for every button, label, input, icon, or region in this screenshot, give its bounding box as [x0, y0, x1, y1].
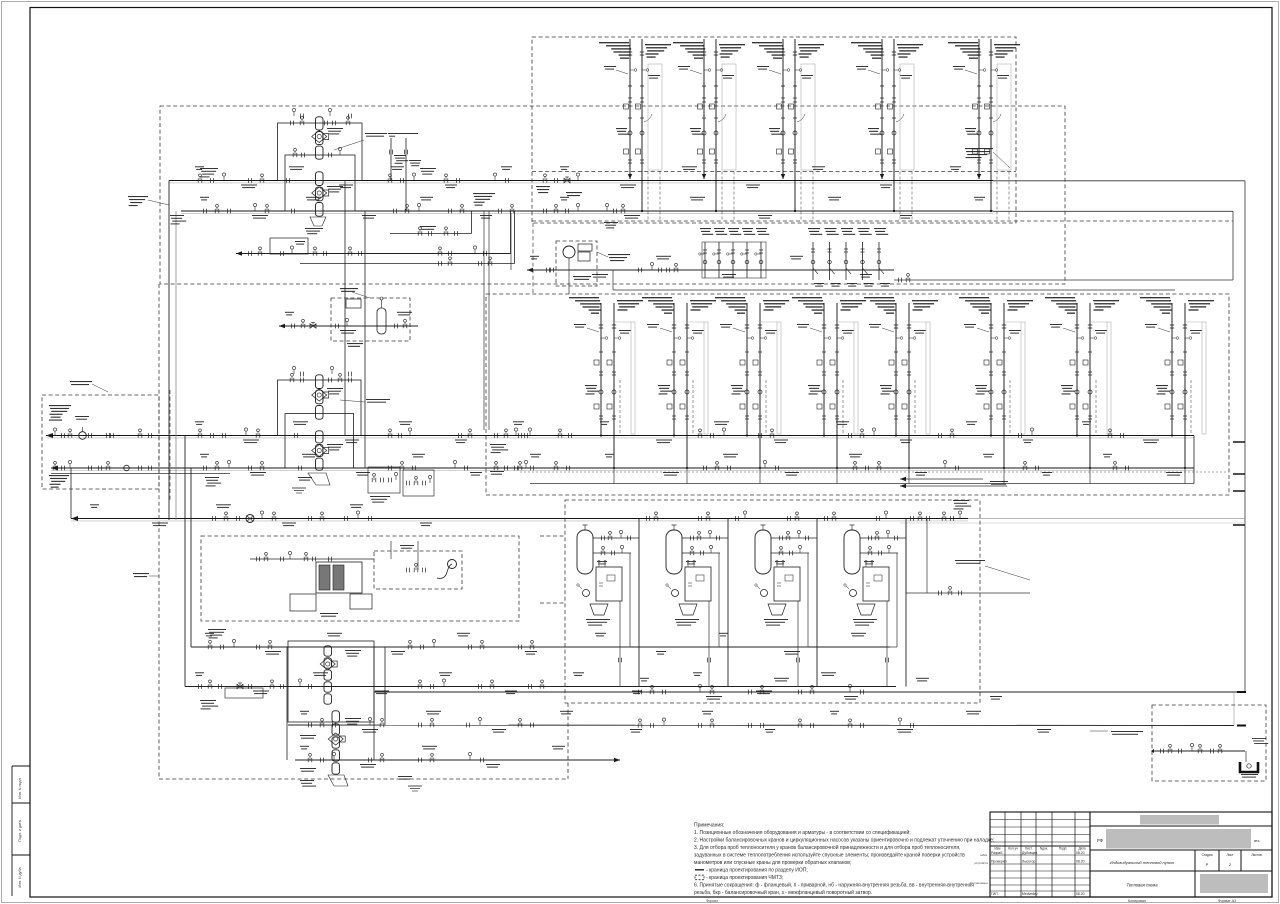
tank module 2 — [666, 530, 682, 574]
svg-text:юбки,: юбки, — [980, 853, 988, 857]
main return pipe mid y468 — [51, 467, 1194, 469]
left riser verticals — [168, 181, 170, 521]
clusters on T1 main left span — [197, 178, 199, 182]
svg-text:Лысогор: Лысогор — [1022, 860, 1035, 864]
dashed bottom-right box — [1152, 705, 1266, 781]
svg-text:ГИП: ГИП — [991, 892, 998, 896]
right header connector v1194 — [1193, 436, 1195, 484]
drop x287 — [286, 647, 288, 760]
pipe y760 — [295, 759, 620, 761]
makeup pump unit — [563, 246, 575, 258]
svg-text:1. Позиционные обозначения обо: 1. Позиционные обозначения оборудования … — [694, 829, 911, 836]
left margin stamp boxes — [12, 765, 30, 767]
svg-text:08.20: 08.20 — [1076, 860, 1085, 864]
G2 column 2 — [825, 228, 837, 229]
group G1 risers — [702, 242, 766, 278]
G1 column 1 — [700, 228, 711, 229]
scattered component labels — [195, 166, 204, 167]
top right labels — [965, 148, 993, 149]
cluster right part y692 y725 — [637, 690, 639, 695]
tank module 1 — [577, 530, 593, 574]
riser pair T1 — [599, 42, 629, 43]
tank module 4 — [844, 530, 860, 574]
svg-text:Инв. N подл.: Инв. N подл. — [18, 777, 22, 798]
svg-text:Проверил: Проверил — [991, 860, 1007, 864]
svg-text:2. Настройки балансировочных к: 2. Настройки балансировочных кранов и ци… — [694, 837, 994, 844]
cluster on y686 — [225, 688, 263, 698]
riser M8 drop — [1184, 468, 1186, 484]
svg-text:3. Для отбора проб теплоносите: 3. Для отбора проб теплоносителя у крано… — [694, 844, 961, 851]
inlet cluster T1 — [54, 431, 56, 436]
svg-text:манометров или спускные краны: манометров или спускные краны для провер… — [694, 860, 851, 866]
long pipe y725 — [288, 724, 1234, 727]
riser M3 drop — [759, 468, 761, 484]
light line y523 — [900, 522, 1245, 524]
end ticks right — [1233, 441, 1245, 443]
arrows into mains — [46, 433, 53, 438]
riser pair M6 — [959, 297, 989, 298]
drop verticals x484 489 511 — [483, 211, 485, 430]
G1 column 2 — [714, 228, 725, 229]
riser pair M5 — [864, 297, 894, 298]
center verticals top — [344, 181, 346, 436]
left margin column line — [11, 766, 13, 896]
softening filters box — [316, 562, 362, 593]
clusters y725 y760 — [307, 723, 309, 728]
pipe y647 — [191, 646, 890, 648]
svg-text:Формат А3: Формат А3 — [1218, 899, 1236, 903]
left main labels — [128, 196, 148, 197]
long pipe y692 — [374, 691, 1245, 693]
aux line y473 — [51, 473, 230, 475]
dashed v533 lower — [532, 223, 534, 294]
svg-text:Разраб.: Разраб. — [991, 851, 1003, 855]
bottom hx column 1 — [324, 646, 332, 656]
top risers lower dashed verticals — [647, 172, 649, 222]
bottom hx column 2 — [332, 711, 340, 722]
svg-text:задуванных в системе теплопотр: задуванных в системе теплопотребления ис… — [694, 852, 965, 859]
dashed region top risers — [532, 37, 1016, 223]
svg-text:Medvedev: Medvedev — [1022, 892, 1038, 896]
svg-text:08.20: 08.20 — [1076, 892, 1085, 896]
riser pair T3 — [752, 42, 782, 43]
riser M7 drop — [1089, 468, 1091, 484]
riser pair M2 — [642, 297, 672, 298]
heat exchanger assembly B — [285, 155, 355, 211]
G2 column 5 — [874, 228, 886, 229]
svg-text:Кол.уч: Кол.уч — [1008, 847, 1018, 851]
riser M6 drop — [1003, 468, 1005, 484]
svg-text:Примечания:: Примечания: — [694, 823, 724, 829]
G1 column 3 — [728, 228, 739, 229]
riser pair M4 — [792, 297, 822, 298]
cluster below top header start — [606, 207, 608, 212]
flush unit label leader — [1111, 731, 1143, 732]
svg-text:Инв. N дубл.: Инв. N дубл. — [18, 867, 22, 888]
riser pair T2 — [673, 42, 703, 43]
dashed big bottom region left edge — [158, 284, 160, 779]
svg-text:Лист: Лист — [1227, 853, 1234, 857]
G2 column 1 — [808, 228, 820, 229]
pipe y270 — [527, 269, 894, 271]
redaction bars — [1140, 815, 1219, 825]
riser pair M7 — [1045, 297, 1075, 298]
drop x613 — [612, 270, 614, 290]
heat exchanger assembly A — [278, 123, 363, 181]
G2 column 4 — [858, 228, 870, 229]
svg-text:Копировал: Копировал — [1128, 899, 1146, 903]
svg-text:ать: ать — [1254, 839, 1260, 843]
dashed tanks region — [565, 500, 980, 703]
title block left table verticals — [1004, 812, 1006, 897]
module divider verticals at bottom — [618, 686, 620, 688]
main supply pipe T1 top — [169, 180, 993, 182]
riser pair M8 — [1140, 297, 1170, 298]
label top 2shт — [388, 133, 418, 134]
svg-text:- краница проектирования ЧМТЗ;: - краница проектирования ЧМТЗ; — [706, 875, 783, 881]
cluster on y647 — [207, 645, 209, 649]
heat exchanger assembly C — [278, 380, 362, 436]
flush pipeline — [1154, 750, 1245, 752]
dashed line y221 wide — [532, 220, 1233, 222]
svg-text:устройств: устройств — [974, 861, 988, 865]
v1234 light — [1233, 692, 1235, 726]
title right structure — [1090, 825, 1272, 827]
mixing capsule — [377, 308, 386, 334]
bottom hx frame — [288, 641, 374, 722]
cold water main y518 — [71, 518, 968, 520]
mixing unit pipe — [279, 325, 418, 327]
left cluster of top headers — [542, 178, 544, 182]
riser pair M3 — [715, 297, 745, 298]
mid drops to bottom x374 x385 — [373, 647, 375, 760]
recirculation header y280 — [894, 279, 1233, 281]
connecting verticals to H211 — [510, 211, 512, 254]
dashed water-treatment box — [201, 536, 519, 621]
sub-branch cluster boxes right of assemblies — [368, 467, 400, 493]
svg-text:Индивидуальный тепловой пункт: Индивидуальный тепловой пункт — [1110, 860, 1175, 865]
brine box below — [290, 594, 316, 611]
title block outer — [990, 812, 1272, 897]
dosing pump — [448, 560, 457, 569]
main return pipe T2 top — [181, 210, 993, 212]
clusters along mid mains — [197, 433, 199, 437]
riser M1 drop — [613, 468, 615, 484]
G1 column 4 — [742, 228, 753, 229]
svg-text:Тепловая схема: Тепловая схема — [1126, 883, 1158, 888]
svg-text:6. Принятые сокращения: ф - фл: 6. Принятые сокращения: ф - фланцевый, п… — [694, 882, 974, 889]
svg-text:Листов: Листов — [1251, 853, 1262, 857]
dashed pump sub-box — [374, 551, 462, 589]
svg-text:Подп. и дата: Подп. и дата — [18, 820, 22, 841]
left cluster mid risers box — [493, 433, 495, 438]
title block left table rows — [990, 819, 1090, 821]
riser M2 drop — [686, 468, 688, 484]
header y290 — [613, 289, 1175, 291]
dashed line inside top risers box — [532, 171, 1016, 173]
dashed region left inlet — [42, 395, 159, 489]
tank module 3 — [755, 530, 771, 574]
dashed region mid risers — [486, 294, 1229, 495]
riser pair T5 — [948, 42, 978, 43]
riser M4 drop — [836, 468, 838, 484]
dashed top pump box — [556, 241, 597, 286]
heat exchanger assembly D — [285, 414, 354, 469]
right drops x906 x927 — [905, 519, 907, 594]
svg-text:резьба, бкр - балансировочный: резьба, бкр - балансировочный кран, з - … — [694, 889, 872, 896]
svg-text:Стадия: Стадия — [1202, 853, 1213, 857]
assembly C air vents — [293, 370, 295, 375]
riser pair T4 — [851, 42, 881, 43]
hx D drain detail — [308, 473, 330, 485]
dashed mixing unit box — [331, 298, 410, 341]
main supply pipe mid y435 — [46, 435, 1194, 437]
riser pair M1 — [569, 297, 599, 298]
feed pipe y559 — [250, 558, 374, 560]
dashed region top-left system — [160, 106, 1065, 284]
cluster on y518 — [211, 516, 213, 521]
note symbol 4 — [695, 869, 704, 871]
short dashed boundary x170 — [169, 390, 171, 500]
svg-text:Формат: Формат — [706, 899, 718, 903]
pipe y253 with box — [236, 253, 511, 255]
svg-text:- краница проектирования по ра: - краница проектирования по разделу ИОП; — [706, 868, 808, 874]
branch pipe y233 — [390, 233, 472, 235]
lines y479 y486 with end arrows — [900, 478, 983, 480]
right vertical x1233 — [1232, 211, 1234, 280]
hx B drain detail — [310, 217, 326, 226]
note symbol 5 — [695, 875, 704, 880]
svg-text:Nдок.: Nдок. — [1040, 847, 1048, 851]
G1 column 5 — [756, 228, 767, 229]
drain funnel — [1240, 762, 1258, 772]
assembly A air vents — [293, 112, 295, 117]
inlet cluster T2 — [52, 466, 54, 470]
tank header y518 ticks — [645, 516, 647, 521]
dotted line under mid headers — [520, 471, 1229, 473]
promyvka leader label — [955, 560, 985, 561]
risers right of assemblies — [390, 138, 392, 181]
svg-text:РФ: РФ — [1097, 838, 1103, 843]
riser M5 drop — [908, 468, 910, 484]
right bus vertical x1245 — [1244, 181, 1246, 692]
mixing small box — [346, 299, 361, 308]
svg-text:08.20: 08.20 — [1076, 851, 1085, 855]
dashed stubs left of tanks — [540, 535, 565, 537]
header y483 — [530, 483, 1194, 485]
salt tank — [350, 594, 372, 609]
inlet vertical to cold water — [70, 468, 72, 519]
svg-text:Подп.: Подп. — [1059, 847, 1068, 851]
svg-text:Дубовцев: Дубовцев — [1022, 851, 1038, 855]
G2 column 3 — [841, 228, 853, 229]
pipe y263 — [300, 263, 515, 265]
bottom hx drain — [328, 775, 348, 786]
tank bottom header y686 — [185, 686, 896, 688]
svg-text:Р: Р — [1206, 862, 1209, 867]
flush labels right — [1252, 737, 1266, 740]
